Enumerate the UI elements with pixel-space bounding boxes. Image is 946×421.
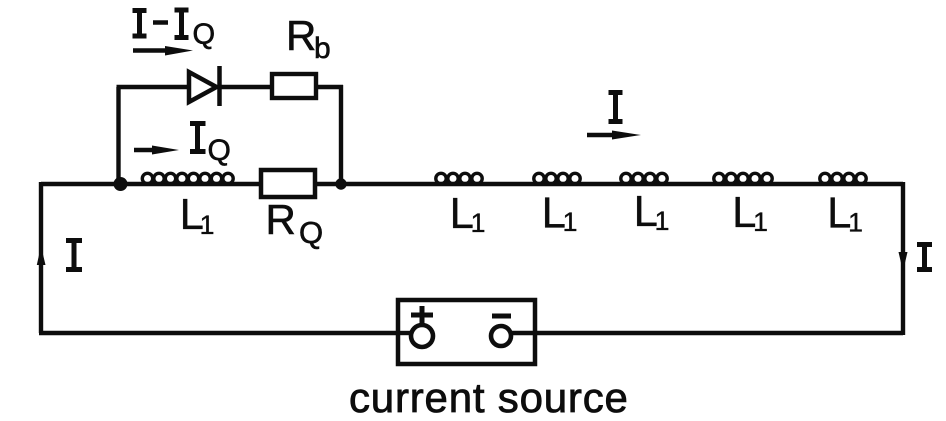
svg-text:1: 1 [471,208,486,238]
svg-text:Q: Q [193,19,216,51]
wire: bypass branch segment diode to Rb [219,85,272,89]
inductor L1 coil #4 [621,173,667,183]
svg-text:R: R [286,12,316,59]
current source terminal - (right circle) [491,326,511,346]
label IQ [190,124,206,152]
wire: right vertical wire [901,182,905,335]
current source box [398,300,535,364]
wire: left vertical wire [39,182,43,333]
arrow current I on right wire (points down) [899,252,908,272]
wire stub from current source right terminal [509,331,535,335]
wire: bypass branch segment Rb to right leg [316,85,343,89]
diode D (triangle) [189,72,217,102]
diode D cathode bar [217,66,222,106]
arrow for I-IQ (points right) [133,48,170,52]
resistor RQ body [261,170,315,197]
wire: bottom wire left of current source [39,331,412,335]
plus sign [411,306,433,324]
inductor L1 coil #5 [714,173,772,183]
wire: top horizontal main wire right segment [315,182,903,186]
svg-text:b: b [314,32,331,65]
minus sign [492,314,511,319]
wire stub into current source left terminal [398,331,413,335]
inductor L1 coil #1 [142,173,233,183]
svg-text:Q: Q [208,134,231,167]
wire: bypass branch top left segment [117,85,189,89]
label I right [917,245,932,270]
svg-text:1: 1 [753,207,768,237]
svg-text:1: 1 [848,208,863,238]
current source terminal + (left circle) [411,325,433,347]
wire: bottom wire right of current source [512,331,903,335]
svg-text:1: 1 [655,206,670,236]
arrow for IQ (points right) [134,148,158,153]
label I-IQ [133,10,189,38]
node B: junction dot right [335,178,346,189]
svg-text:Q: Q [299,215,323,250]
node A: junction dot left [114,177,128,191]
resistor Rb body [272,74,316,98]
label I (top middle) with arrow [609,93,623,122]
wire: bypass branch left leg [116,87,120,184]
arrow for I top middle (points right) [587,133,617,138]
arrow current I on left wire (points up) [37,246,46,265]
label I left [66,241,82,270]
wire: top horizontal main wire left segment [41,182,261,186]
svg-text:R: R [266,196,296,243]
svg-text:1: 1 [563,207,578,237]
inductor L1 coil #3 [534,173,580,183]
wire: bypass branch right leg [339,85,343,184]
inductor L1 coil #6 [820,173,866,183]
svg-text:1: 1 [200,210,215,240]
inductor L1 coil #2 [436,173,482,183]
svg-text:current source: current source [349,374,629,421]
